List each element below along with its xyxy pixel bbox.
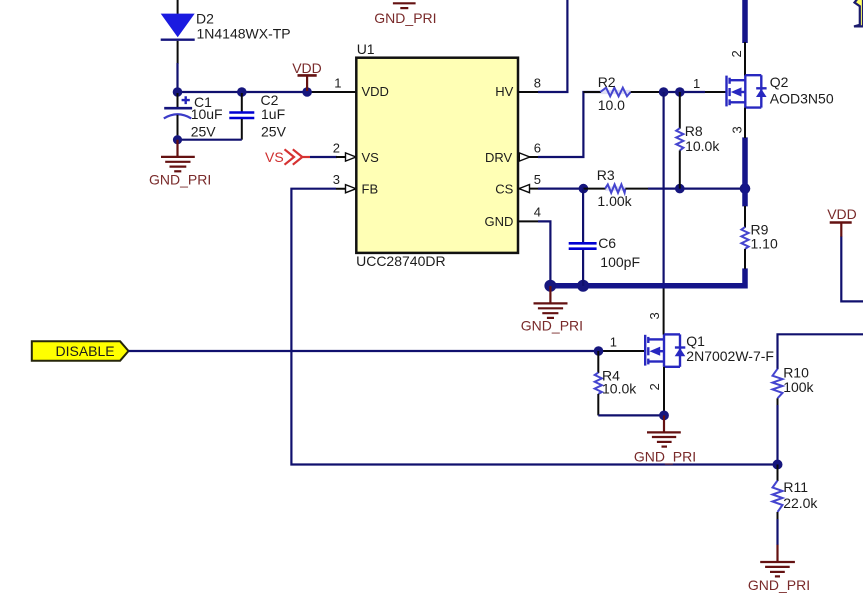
resistor R11 [773,465,819,521]
svg-text:22.0k: 22.0k [783,495,818,511]
svg-text:Q1: Q1 [686,333,705,349]
svg-text:10uF: 10uF [191,106,223,122]
svg-text:10.0: 10.0 [598,97,625,113]
svg-text:1.10: 1.10 [751,236,778,252]
svg-text:Q2: Q2 [770,74,789,90]
svg-text:VS: VS [265,149,284,165]
svg-text:R10: R10 [783,364,809,380]
resistor R10 [773,364,815,406]
node C6 bottom on bus [577,280,589,292]
svg-text:1: 1 [334,75,341,90]
wire GND pin to bus [538,221,550,286]
resistor R8 [676,92,720,189]
svg-text:R2: R2 [598,74,616,90]
ground GND_PRI (top, partial) [374,0,436,26]
svg-text:2: 2 [729,50,744,57]
port VS (red chevrons) [265,149,310,165]
svg-text:3: 3 [730,126,745,133]
wire FB vertical from pin3 down and across to R10/R11 node [291,189,777,465]
svg-text:25V: 25V [261,124,287,140]
node Q1 source / gnd [659,411,669,421]
svg-text:2N7002W-7-F: 2N7002W-7-F [686,348,774,364]
svg-text:C6: C6 [598,235,616,251]
resistor R3 [583,167,648,209]
svg-text:2: 2 [647,383,662,390]
svg-text:R8: R8 [685,123,703,139]
node R8 bottom [675,184,685,194]
transistor Q1 2N7002W-7-F [645,333,774,367]
wire gate node to Q1 gate [599,350,646,352]
node C2 top [237,87,247,97]
svg-text:DISABLE: DISABLE [56,343,115,359]
resistor R4 [595,351,638,415]
svg-text:10.0k: 10.0k [602,380,637,396]
svg-text:2: 2 [333,140,340,155]
svg-text:1N4148WX-TP: 1N4148WX-TP [197,25,291,41]
resistor R9 [741,206,778,269]
Q1 source to gnd node [663,367,665,416]
wire R11 bottom to ground [776,519,778,545]
wire R10 bottom to FB node [776,405,778,465]
svg-text:GND_PRI: GND_PRI [521,318,583,334]
svg-text:10.0k: 10.0k [685,138,720,154]
wire Q1 drain column (crosses CS row and GND bus, no junction) [662,92,664,286]
svg-text:4: 4 [534,204,541,219]
pin 2 with input arrow [336,153,356,161]
node R2/Q1-drain [659,87,669,97]
wire R4 bottom to Q1 source [598,414,664,416]
wire CS to R3 [538,188,583,190]
node C1 top [173,87,183,97]
svg-text:VDD: VDD [827,206,857,222]
wire DRV to R2 [538,92,600,157]
svg-text:FB: FB [362,182,379,197]
pin 3 with input arrow [336,185,356,193]
svg-text:100k: 100k [783,379,814,395]
wire D2 cathode to VDD node row [177,41,179,64]
svg-text:1.00k: 1.00k [597,193,632,209]
svg-text:UCC28740DR: UCC28740DR [356,253,445,269]
pin 8 HV stub [518,91,538,93]
thick drain bus from top to Q2 [742,0,748,43]
svg-text:D2: D2 [196,11,214,27]
wire top feed to D2 [177,0,179,14]
node VDD [302,87,312,97]
Q2 pin 2 (drain) stub [744,42,746,76]
svg-text:1: 1 [693,76,700,91]
svg-text:100pF: 100pF [600,254,640,270]
capacitor C2 [229,92,286,140]
flag DISABLE [32,341,129,360]
ground GND_PRI (Q1) [634,415,696,464]
svg-text:GND_PRI: GND_PRI [374,10,436,26]
ground GND_PRI (C1) [149,140,211,188]
svg-text:R11: R11 [783,479,808,495]
svg-text:DRV: DRV [485,150,513,165]
op-amp U1 UCC28740DR body [356,41,518,269]
svg-text:HV: HV [495,84,513,99]
pin 4 GND stub [518,220,538,222]
thick bus corner up to R9 [742,268,748,288]
wire R3 to R8 bottom and Q2 source node [648,188,745,190]
wire HV up to top edge [538,0,567,92]
wire VDD row [178,91,308,93]
svg-text:CS: CS [495,182,513,197]
flag (partial, top-right corner) [854,0,863,26]
node Q2 source / R9 top [740,183,751,194]
capacitor C1 [164,93,223,140]
diode D2 [161,11,291,42]
resistor R2 [583,74,663,113]
power port VDD (left) [292,60,322,91]
power port VDD (right) [827,206,857,237]
svg-text:8: 8 [534,75,541,90]
ground GND_PRI (U1/bus) [521,286,583,334]
ground GND_PRI (R11) [748,545,810,593]
svg-text:VS: VS [362,150,380,165]
svg-text:1: 1 [610,335,617,350]
thick bus segment Q2 source to R9 [742,137,748,206]
node FB / R10 / R11 [773,460,783,470]
node Q1 gate / R4 top [594,346,604,356]
pin 6 DRV stub with output arrow [518,153,538,161]
thick GND bus [550,283,745,289]
node C1 bottom [173,135,182,144]
node bus left / gnd stem [544,280,556,292]
transistor Q2 AOD3N50 [727,74,834,108]
wire C1 bottom to C2 bottom [178,139,242,141]
wire R10 top from right edge [778,334,863,369]
svg-text:5: 5 [534,172,541,187]
svg-text:VDD: VDD [292,60,322,76]
Q2 pin 3 (source) stub [744,108,746,138]
wire VS to U1 pin 2 [310,156,337,158]
wire R2 node to Q2 gate [663,91,705,93]
node CS / C6 top [579,184,589,194]
svg-text:AOD3N50: AOD3N50 [770,90,834,106]
svg-text:1uF: 1uF [261,106,285,122]
svg-text:U1: U1 [357,41,375,57]
wire to C1 node [176,63,178,92]
node R8 top [675,87,685,97]
svg-text:6: 6 [534,140,541,155]
svg-text:25V: 25V [191,124,217,140]
svg-text:VDD: VDD [362,84,389,99]
svg-text:R3: R3 [597,167,615,183]
svg-text:GND_PRI: GND_PRI [748,577,810,593]
wire DISABLE to Q1 gate node [129,350,599,352]
svg-text:3: 3 [647,312,662,319]
svg-text:GND_PRI: GND_PRI [149,172,211,188]
pin 5 CS stub with input arrow [518,185,538,193]
svg-text:GND_PRI: GND_PRI [634,448,696,464]
wire VDD node to U1 pin 1 [307,91,356,93]
svg-text:3: 3 [333,172,340,187]
svg-text:GND: GND [485,214,514,229]
wire VDD right down and off right edge [841,237,863,302]
capacitor C6 [569,189,640,286]
